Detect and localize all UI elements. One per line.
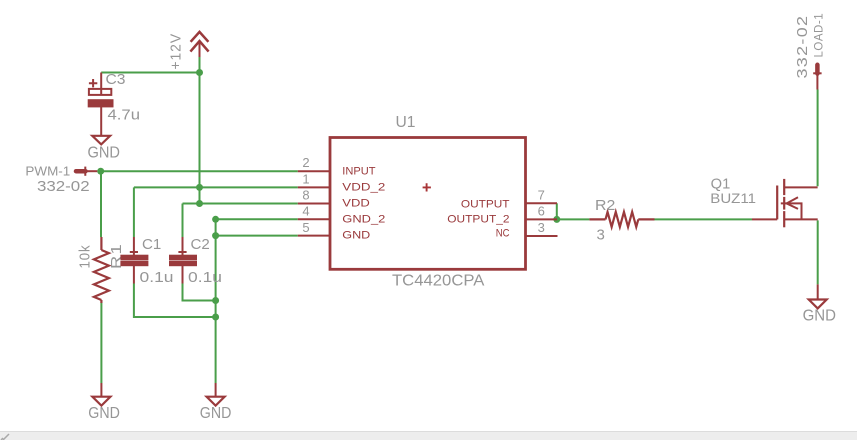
svg-text:GND_2: GND_2	[342, 213, 385, 225]
junction output node	[553, 216, 560, 223]
pin flag PWM-1	[76, 167, 97, 176]
svg-text:GND: GND	[803, 308, 836, 325]
svg-text:6: 6	[538, 204, 545, 219]
svg-text:U1: U1	[396, 114, 416, 131]
wire U1 pin 8 VDD	[183, 203, 298, 205]
svg-text:TC4420CPA: TC4420CPA	[392, 273, 485, 290]
wire down to C1 top	[133, 187, 135, 237]
junction C1 gnd	[212, 314, 219, 321]
op-amp U1 box	[330, 138, 526, 270]
junction GND pin4	[212, 216, 219, 223]
supply symbol +12V	[190, 32, 208, 57]
svg-text:4.7u: 4.7u	[108, 107, 141, 124]
junction C2 gnd	[212, 297, 219, 304]
svg-text:0.1u: 0.1u	[140, 269, 174, 286]
capacitor C2	[170, 237, 197, 284]
svg-text:LOAD-1: LOAD-1	[814, 13, 826, 58]
svg-text:VDD_2: VDD_2	[342, 181, 385, 193]
wire output to R2	[557, 218, 590, 220]
svg-text:BUZ11: BUZ11	[710, 190, 756, 206]
junction GND pin5	[212, 232, 219, 239]
svg-text:8: 8	[302, 188, 309, 203]
wire C2 bottom to GND trunk	[183, 284, 216, 301]
junction PWM node	[97, 168, 104, 175]
svg-text:7: 7	[538, 188, 545, 203]
wire U1 pin 1 VDD_2	[134, 186, 298, 188]
svg-text:PWM-1: PWM-1	[25, 165, 70, 179]
resistor R2	[589, 212, 654, 227]
svg-text:NC: NC	[496, 227, 510, 239]
svg-text:OUTPUT_2: OUTPUT_2	[447, 214, 509, 226]
resistor R1	[94, 237, 109, 303]
scrollbar strip	[0, 432, 857, 440]
wire PWM to U1 pin 2	[101, 170, 298, 172]
ground C3	[92, 136, 110, 145]
svg-text:GND: GND	[200, 405, 232, 422]
svg-text:C3: C3	[106, 72, 126, 88]
wire Q1 drain to load	[817, 90, 819, 187]
svg-text:4: 4	[302, 204, 309, 219]
svg-text:R2: R2	[595, 197, 615, 214]
junction C3/+12V	[196, 69, 203, 76]
ground trunk	[215, 383, 217, 397]
transistor Q1	[752, 179, 818, 227]
ground R1	[92, 397, 110, 406]
U1 pin stubs right	[526, 203, 558, 236]
wire C1 bottom to GND trunk	[134, 284, 216, 318]
wire down to C2 top	[182, 204, 184, 238]
svg-text:GND: GND	[88, 405, 120, 422]
U1 pin stubs left	[298, 171, 330, 235]
svg-text:332-02: 332-02	[794, 15, 811, 79]
svg-text:5: 5	[302, 220, 309, 235]
svg-text:3: 3	[597, 226, 605, 243]
svg-text:1: 1	[302, 172, 309, 187]
svg-text:VDD: VDD	[342, 198, 370, 210]
wire R2 to Q1 gate	[655, 218, 753, 220]
svg-text:2: 2	[302, 155, 309, 170]
U1 origin cross	[423, 183, 431, 191]
ground Q1 source	[817, 284, 819, 299]
wire +12V vertical trunk	[199, 57, 201, 204]
svg-text:C2: C2	[191, 237, 210, 253]
wire PWM down to R1	[100, 171, 102, 237]
pin flag LOAD-1	[813, 65, 821, 90]
wire U1 pin 5 GND	[216, 235, 298, 237]
svg-text:10k: 10k	[77, 245, 94, 269]
svg-text:C1: C1	[142, 237, 161, 253]
capacitor C3	[89, 73, 113, 136]
svg-text:0.1u: 0.1u	[188, 269, 222, 286]
svg-text:332-02: 332-02	[37, 178, 90, 195]
wire Q1 source to GND	[817, 220, 819, 284]
wire U1 pin 7 branch down	[556, 203, 558, 219]
wire GND trunk vertical	[215, 219, 217, 383]
capacitor C1	[121, 237, 148, 284]
wire U1 pin 4 GND_2	[216, 218, 298, 220]
svg-text:GND: GND	[342, 230, 370, 242]
svg-text:3: 3	[538, 220, 545, 235]
junction +12V pin1	[196, 184, 203, 191]
junction +12V pin8	[196, 200, 203, 207]
svg-text:GND: GND	[88, 144, 121, 161]
svg-text:+12V: +12V	[168, 33, 185, 70]
wire C3 to +12V horizontal	[101, 72, 199, 74]
svg-text:INPUT: INPUT	[342, 165, 375, 177]
svg-text:OUTPUT: OUTPUT	[461, 198, 510, 210]
wire R1 bottom to GND	[100, 303, 102, 384]
